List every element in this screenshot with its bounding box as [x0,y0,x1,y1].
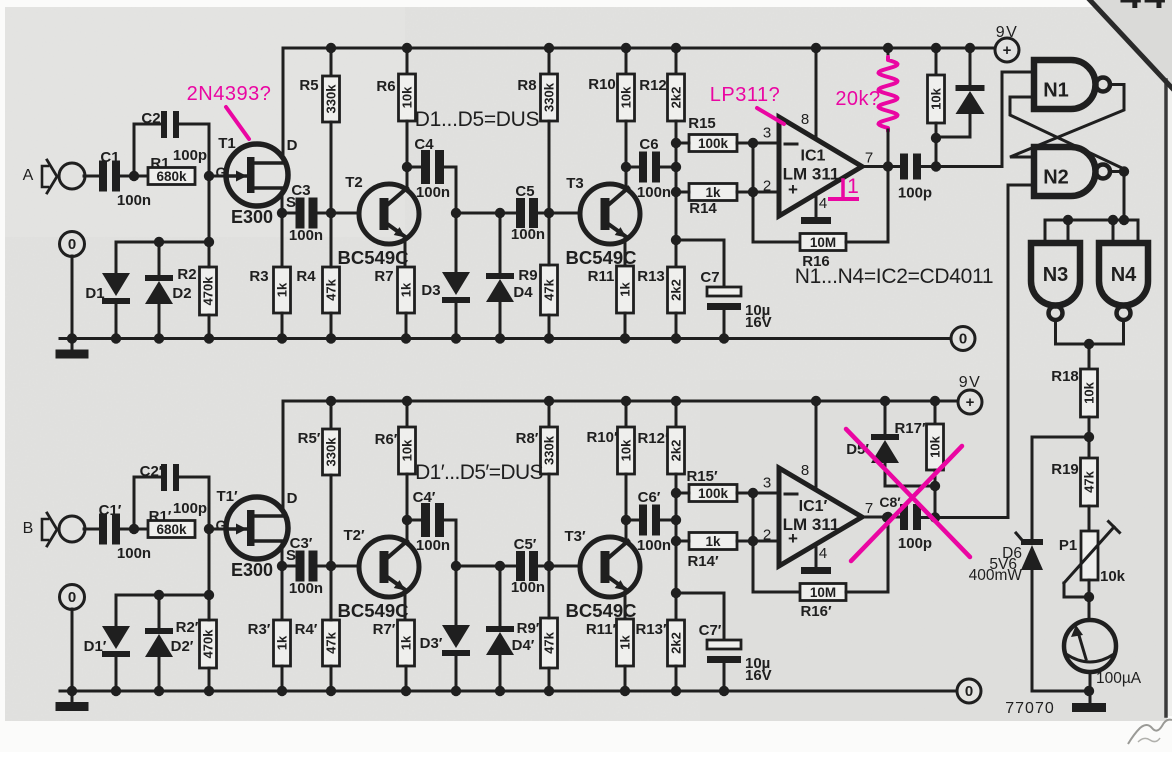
svg-text:N4: N4 [1111,264,1137,286]
svg-text:C1′: C1′ [99,502,122,519]
svg-text:R15: R15 [688,115,716,132]
svg-text:R6: R6 [376,78,395,95]
svg-text:2: 2 [763,178,771,195]
svg-text:0: 0 [965,683,973,700]
svg-text:0: 0 [68,236,76,253]
svg-text:10M: 10M [810,235,836,250]
svg-text:LP311?: LP311? [710,84,780,106]
svg-text:0: 0 [959,331,967,348]
svg-text:R19: R19 [1051,461,1079,478]
svg-text:C4′: C4′ [413,489,436,506]
svg-text:7: 7 [865,500,873,517]
svg-text:R15′: R15′ [686,468,718,485]
svg-text:C7: C7 [700,269,719,286]
svg-text:16V: 16V [745,314,772,331]
svg-text:N1...N4=IC2=CD4011: N1...N4=IC2=CD4011 [795,265,994,288]
svg-text:R9′: R9′ [517,620,540,637]
svg-text:T2′: T2′ [343,527,365,544]
svg-text:100n: 100n [117,192,151,209]
svg-text:100n: 100n [637,184,671,201]
svg-text:C1: C1 [100,149,119,166]
svg-text:9V: 9V [996,24,1019,41]
svg-text:R4′: R4′ [295,621,318,638]
svg-text:+: + [1003,42,1012,59]
svg-text:44: 44 [1120,0,1168,17]
svg-text:330k: 330k [324,84,339,114]
svg-text:100n: 100n [511,579,545,596]
svg-text:LM 311: LM 311 [783,515,840,534]
svg-text:3: 3 [763,475,771,492]
svg-text:N2: N2 [1043,167,1069,189]
svg-text:330k: 330k [324,437,339,467]
svg-text:R5′: R5′ [298,430,321,447]
svg-text:C8′: C8′ [879,494,901,510]
svg-text:R9: R9 [518,267,537,284]
svg-text:D1...D5=DUS: D1...D5=DUS [415,108,540,131]
svg-text:R2′: R2′ [176,619,199,636]
svg-text:1k: 1k [618,282,633,297]
svg-text:R14′: R14′ [687,553,719,570]
svg-text:R11: R11 [588,268,615,285]
svg-text:T3′: T3′ [564,528,586,545]
svg-text:2N4393?: 2N4393? [187,83,272,105]
svg-text:330k: 330k [542,435,557,465]
svg-text:47k: 47k [324,631,339,653]
svg-text:16V: 16V [745,667,772,684]
svg-text:+: + [966,394,975,411]
svg-text:C3: C3 [291,182,310,199]
svg-text:R3′: R3′ [248,621,271,638]
svg-text:100n: 100n [416,537,450,554]
svg-text:IC1: IC1 [801,148,826,165]
svg-text:10k: 10k [619,439,634,461]
svg-text:100n: 100n [289,227,323,244]
svg-text:T1′: T1′ [216,488,238,505]
svg-text:D3′: D3′ [420,635,443,652]
svg-text:100p: 100p [898,185,932,202]
svg-text:47k: 47k [1082,470,1097,492]
svg-text:D1: D1 [85,285,104,302]
svg-text:10k: 10k [1082,381,1097,403]
svg-text:R6′: R6′ [375,431,398,448]
svg-text:R3: R3 [249,268,268,285]
svg-text:R13: R13 [637,268,665,285]
svg-text:R5: R5 [299,77,318,94]
svg-text:10M: 10M [810,585,836,600]
svg-text:77070: 77070 [1005,700,1055,717]
svg-text:3: 3 [763,125,771,142]
svg-text:4: 4 [819,195,827,212]
svg-text:D1′: D1′ [84,638,107,655]
svg-text:1k: 1k [275,282,290,297]
svg-text:R8′: R8′ [516,430,539,447]
svg-text:D4′: D4′ [512,637,535,654]
svg-text:N1: N1 [1043,80,1069,102]
svg-text:LM 311: LM 311 [783,165,840,184]
svg-text:D2′: D2′ [171,638,194,655]
svg-text:R17′: R17′ [894,420,926,437]
svg-text:2: 2 [763,527,771,544]
svg-text:4: 4 [819,545,827,562]
svg-text:10k: 10k [929,87,944,109]
svg-text:1k: 1k [275,635,290,650]
svg-text:R8: R8 [517,77,536,94]
svg-text:20k?: 20k? [835,88,880,110]
svg-text:2k2: 2k2 [669,279,684,301]
svg-text:P1: P1 [1059,537,1077,554]
svg-text:R10: R10 [588,76,616,93]
svg-text:D1′...D5′=DUS: D1′...D5′=DUS [415,461,543,484]
svg-text:10k: 10k [928,435,943,457]
svg-text:100µA: 100µA [1096,670,1142,687]
svg-text:680k: 680k [156,522,187,537]
svg-text:N3: N3 [1043,264,1069,286]
svg-text:D: D [287,490,298,507]
svg-text:R12′: R12′ [637,430,669,447]
svg-text:7: 7 [865,150,873,167]
svg-text:R4: R4 [296,268,316,285]
svg-text:C5: C5 [515,183,534,200]
svg-text:C4: C4 [414,136,434,153]
svg-text:E300: E300 [231,207,273,227]
svg-text:IC1′: IC1′ [799,498,828,515]
svg-text:100n: 100n [511,226,545,243]
svg-text:2k2: 2k2 [669,87,684,109]
svg-text:47k: 47k [542,278,557,300]
svg-text:C7′: C7′ [699,622,722,639]
svg-text:1: 1 [847,175,859,198]
svg-text:B: B [23,520,34,537]
svg-text:R14: R14 [689,200,717,217]
svg-text:T3: T3 [566,175,584,192]
svg-text:47k: 47k [542,631,557,653]
svg-text:C6′: C6′ [638,489,661,506]
svg-text:1k: 1k [618,635,633,650]
svg-text:680k: 680k [156,169,187,184]
svg-text:C6: C6 [639,136,658,153]
svg-text:100n: 100n [117,545,151,562]
svg-text:E300: E300 [231,560,273,580]
svg-text:R2: R2 [177,266,196,283]
svg-text:R16′: R16′ [800,603,832,620]
svg-text:BC549C: BC549C [338,600,409,621]
svg-text:R10′: R10′ [586,429,618,446]
svg-text:BC549C: BC549C [338,247,409,268]
svg-text:D3: D3 [421,282,440,299]
svg-text:D4: D4 [513,284,533,301]
svg-text:R7′: R7′ [373,621,396,638]
svg-text:2k2: 2k2 [669,440,684,462]
svg-text:8: 8 [801,462,809,479]
svg-text:1k: 1k [399,635,414,650]
svg-text:1k: 1k [705,534,721,549]
svg-text:0: 0 [68,589,76,606]
svg-text:R7: R7 [374,268,393,285]
svg-text:D: D [287,137,298,154]
svg-text:A: A [23,167,34,184]
svg-text:10k: 10k [619,86,634,108]
svg-text:R18: R18 [1051,368,1079,385]
svg-text:470k: 470k [201,276,216,306]
svg-text:T1: T1 [218,135,236,152]
svg-text:2k2: 2k2 [669,632,684,654]
svg-text:100p: 100p [173,500,207,517]
svg-text:C3′: C3′ [290,535,313,552]
svg-text:10k: 10k [1100,568,1126,585]
svg-text:1k: 1k [705,185,721,200]
svg-text:100p: 100p [173,147,207,164]
svg-text:R13′: R13′ [635,621,667,638]
svg-text:100n: 100n [416,184,450,201]
svg-text:100k: 100k [698,486,729,501]
svg-text:R11′: R11′ [586,621,617,638]
svg-text:100p: 100p [898,535,932,552]
svg-text:100n: 100n [289,580,323,597]
svg-text:400mW: 400mW [969,567,1023,584]
svg-text:8: 8 [801,111,809,128]
svg-text:47k: 47k [324,278,339,300]
svg-text:D2: D2 [172,285,191,302]
svg-text:9V: 9V [959,374,982,391]
svg-text:100k: 100k [698,136,729,151]
svg-text:100n: 100n [637,537,671,554]
svg-text:10k: 10k [400,86,415,108]
svg-text:470k: 470k [201,629,216,659]
svg-text:C5′: C5′ [514,536,537,553]
svg-text:C2: C2 [141,110,160,127]
svg-text:330k: 330k [542,82,557,112]
svg-text:R12: R12 [639,77,667,94]
svg-text:T2: T2 [345,174,363,191]
svg-text:1k: 1k [399,282,414,297]
svg-text:C2′: C2′ [140,463,163,480]
svg-text:10k: 10k [400,439,415,461]
